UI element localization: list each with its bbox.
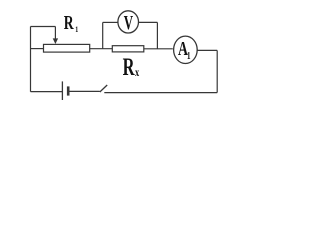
switch blade (100, 85, 107, 92)
svg-text:1: 1 (187, 50, 191, 62)
battery short thick plate (67, 86, 70, 95)
svg-text:R: R (64, 12, 75, 34)
voltmeter U-V circle (118, 11, 139, 33)
wire left vertical (30, 27, 32, 92)
resistor Rx body (112, 46, 144, 52)
wire bottom right (104, 92, 217, 94)
svg-text:V: V (124, 11, 133, 33)
resistor R1 body (44, 44, 90, 52)
wire ammeter to right edge (197, 49, 217, 51)
wire bottom left (31, 91, 63, 93)
wire top bracket to slider (31, 26, 56, 28)
wire battery to switch (69, 90, 100, 92)
wire right vertical (216, 50, 218, 92)
rheostat arrow head (53, 38, 58, 44)
wire voltmeter left lead (103, 21, 118, 23)
wire left to R1 (31, 48, 44, 50)
ammeter A1 circle (174, 36, 198, 63)
wire voltmeter riser (102, 22, 104, 48)
wire rheostat slider arrow shaft (54, 27, 56, 40)
wire voltmeter drop (156, 22, 158, 48)
svg-text:1: 1 (75, 24, 78, 34)
wire Rx to ammeter (144, 48, 173, 50)
battery long plate (61, 81, 63, 100)
wire voltmeter right lead (139, 21, 158, 23)
svg-text:x: x (135, 67, 139, 80)
wire R1 to Rx (90, 48, 113, 50)
svg-text:R: R (123, 52, 135, 80)
